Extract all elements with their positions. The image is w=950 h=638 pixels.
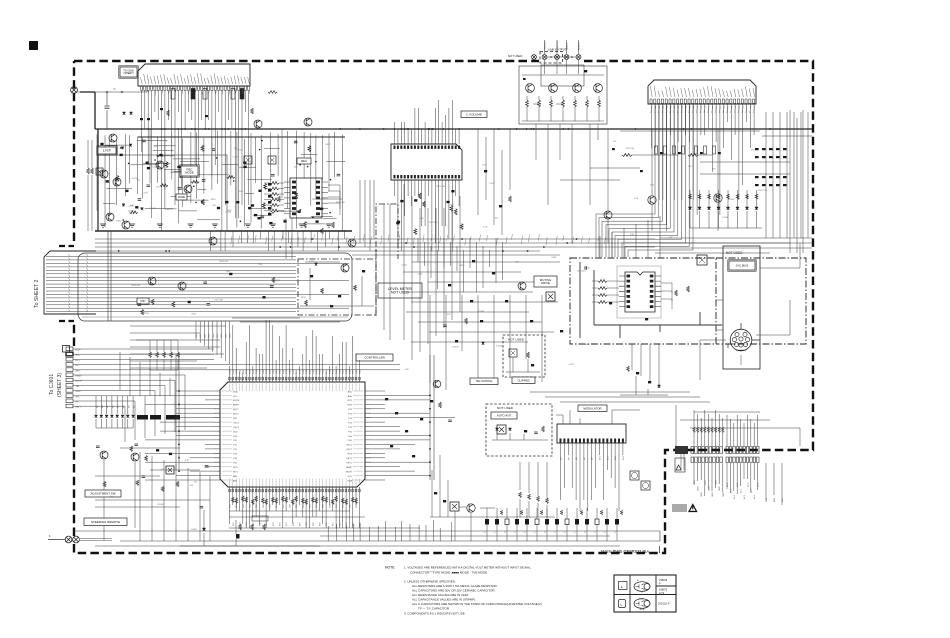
svg-text:TEL MUTING: TEL MUTING bbox=[476, 379, 493, 383]
svg-text:P7A: P7A bbox=[252, 370, 255, 374]
svg-text:RST: RST bbox=[348, 454, 353, 456]
svg-text:B.UP: B.UP bbox=[76, 350, 82, 352]
label TO CN30 bbox=[119, 66, 138, 78]
rec dash-dot extension bbox=[716, 258, 806, 344]
transistor symbol table bbox=[614, 575, 676, 612]
svg-text:1. VOLTAGES ARE REFERENCED WIT: 1. VOLTAGES ARE REFERENCED WITH A DIGITA… bbox=[404, 566, 532, 570]
mid right small parts bbox=[560, 129, 722, 265]
svg-text:ACC: ACC bbox=[729, 488, 732, 493]
label ADJUSTMENT SW bbox=[85, 490, 121, 497]
label MODE bbox=[176, 194, 187, 200]
svg-text:ALL CAPACITORS ARE 50V OR 25V: ALL CAPACITORS ARE 50V OR 25V CERAMIC CA… bbox=[412, 589, 496, 593]
QFP side pin labels bbox=[233, 390, 353, 482]
svg-text:KEY1: KEY1 bbox=[233, 409, 239, 411]
svg-text:L.N.P.: L.N.P. bbox=[103, 149, 112, 153]
small warn triangle bbox=[676, 465, 681, 470]
svg-text:R612: R612 bbox=[301, 297, 307, 299]
not-used black bars bbox=[137, 415, 148, 420]
verticals near C.VOLUME right bbox=[478, 129, 510, 235]
jacks J201-J204 bbox=[547, 56, 576, 58]
svg-text:0.022: 0.022 bbox=[132, 178, 138, 180]
label REC bbox=[297, 158, 311, 164]
bottom rails bbox=[74, 531, 660, 546]
svg-text:3. COMPONENTS IN [ ] INDICATE: 3. COMPONENTS IN [ ] INDICATE NOT USE. bbox=[404, 612, 466, 616]
svg-text:C334: C334 bbox=[309, 261, 315, 263]
svg-text:TF — T.F. CAPACITOR.: TF — T.F. CAPACITOR. bbox=[418, 607, 450, 611]
svg-text:GND: GND bbox=[719, 486, 721, 491]
label MIC2 bbox=[137, 298, 149, 304]
svg-text:NOT USED: NOT USED bbox=[726, 251, 743, 255]
svg-text:OSC2: OSC2 bbox=[233, 427, 240, 429]
svg-text:DRIVE: DRIVE bbox=[541, 281, 550, 285]
svg-text:C334: C334 bbox=[417, 274, 423, 276]
jumper J203 bbox=[268, 156, 276, 164]
svg-text:ILL-: ILL- bbox=[76, 365, 80, 367]
svg-text:R612: R612 bbox=[211, 199, 217, 201]
not used jacks dashed box bbox=[540, 52, 563, 64]
wire fan from CN201 bbox=[142, 91, 249, 232]
svg-text:CLIPPED: CLIPPED bbox=[517, 378, 529, 382]
svg-text:R612: R612 bbox=[460, 265, 466, 267]
harness transistors bbox=[148, 277, 156, 285]
svg-text:47K: 47K bbox=[447, 314, 451, 316]
boxed transistors Q407 Q408 bbox=[630, 471, 639, 480]
svg-text:P2A: P2A bbox=[335, 370, 338, 374]
label box small bottom bbox=[252, 516, 268, 521]
svg-text:P2A: P2A bbox=[269, 370, 272, 374]
svg-text:GND: GND bbox=[705, 480, 707, 485]
CN202 wire fan bbox=[652, 104, 755, 231]
frame jog at sheet2 comb bbox=[59, 246, 74, 321]
svg-text:1/16W: 1/16W bbox=[728, 199, 734, 201]
svg-text:1/16W: 1/16W bbox=[128, 210, 134, 212]
label MODULATOR bbox=[578, 405, 607, 412]
small ref box left of combs bbox=[675, 458, 685, 472]
din wires bbox=[700, 243, 800, 380]
svg-text:(SHEET): (SHEET) bbox=[124, 72, 134, 75]
components near IC201 bbox=[396, 190, 463, 235]
svg-text:47K: 47K bbox=[226, 271, 230, 273]
diode row D201-D208 bbox=[688, 190, 762, 228]
scatter value labels bbox=[110, 141, 768, 531]
auto ant parts bbox=[492, 426, 548, 440]
svg-text:P1A: P1A bbox=[232, 370, 235, 374]
svg-text:P6A: P6A bbox=[315, 370, 318, 374]
svg-text:4.7K: 4.7K bbox=[650, 184, 655, 186]
svg-text:1/16W: 1/16W bbox=[191, 529, 197, 531]
diode resistor bundle bbox=[95, 396, 135, 428]
svg-text:KEY2: KEY2 bbox=[346, 458, 352, 460]
svg-text:10K: 10K bbox=[154, 146, 158, 148]
label CONTROLLER bbox=[356, 354, 393, 361]
QFP flank vertical buses bbox=[176, 355, 434, 480]
connector row2 bbox=[691, 457, 722, 463]
jack J200 not used bbox=[532, 55, 537, 60]
svg-text:2SD1113 P: 2SD1113 P bbox=[658, 604, 670, 606]
IC402 DIP bbox=[625, 272, 655, 312]
svg-text:STEERING REMOTE: STEERING REMOTE bbox=[91, 520, 120, 524]
svg-text:VSS: VSS bbox=[233, 436, 238, 438]
svg-text:GND: GND bbox=[76, 391, 81, 393]
svg-text:ANT: ANT bbox=[773, 497, 776, 502]
res row left bottom bbox=[239, 524, 266, 530]
CN202 pin text bbox=[650, 86, 754, 97]
CJ601 pins bbox=[63, 346, 74, 408]
jvc bus outer box bbox=[723, 246, 760, 369]
svg-text:2SC1740: 2SC1740 bbox=[758, 190, 768, 192]
bottom cap row bbox=[485, 508, 623, 541]
svg-text:ALL RESISTANCE VALUES ARE IN O: ALL RESISTANCE VALUES ARE IN OHM. bbox=[412, 593, 469, 597]
svg-text:NOT USED: NOT USED bbox=[391, 291, 409, 295]
QFP pin stubs bbox=[214, 377, 371, 492]
svg-text:CONNECTOR″″″TYPE MODE. ■■■■ MO: CONNECTOR″″″TYPE MODE. ■■■■ MODE : TUB M… bbox=[410, 571, 488, 575]
svg-text:1/16W: 1/16W bbox=[452, 347, 458, 349]
svg-text:RST: RST bbox=[233, 418, 238, 420]
svg-text:SP-: SP- bbox=[76, 402, 80, 404]
svg-text:C334: C334 bbox=[144, 313, 150, 315]
svg-text:4.7K: 4.7K bbox=[634, 198, 639, 200]
svg-text:ANT: ANT bbox=[781, 497, 784, 502]
svg-text:P3A: P3A bbox=[239, 370, 242, 374]
svg-text:GND: GND bbox=[708, 486, 710, 491]
CN202 below-pin labels bbox=[651, 106, 755, 113]
svg-text:OSC1: OSC1 bbox=[233, 422, 240, 424]
svg-text:0.022: 0.022 bbox=[569, 364, 575, 366]
svg-text:ACC: ACC bbox=[743, 494, 746, 499]
svg-text:C334: C334 bbox=[152, 166, 158, 168]
label CLIPPED bbox=[512, 377, 535, 384]
svg-text:4.7K: 4.7K bbox=[668, 237, 673, 239]
svg-text:4.7K: 4.7K bbox=[483, 227, 488, 229]
svg-text:C334: C334 bbox=[128, 205, 134, 207]
svg-text:P4A: P4A bbox=[242, 370, 245, 374]
svg-text:CONTROLLER: CONTROLLER bbox=[364, 356, 385, 360]
svg-text:ANT: ANT bbox=[765, 497, 768, 502]
svg-text:R612: R612 bbox=[326, 144, 332, 146]
center parts bbox=[443, 260, 563, 344]
svg-text:KEY1: KEY1 bbox=[346, 463, 352, 465]
svg-text:ECB: ECB bbox=[639, 599, 644, 601]
svg-text:GND: GND bbox=[694, 480, 696, 485]
CJ601 pin labels bbox=[76, 350, 83, 409]
svg-text:P6A: P6A bbox=[282, 370, 285, 374]
resistors left of U202 bbox=[264, 182, 340, 234]
svg-text:0.022: 0.022 bbox=[204, 467, 210, 469]
svg-text:P8A: P8A bbox=[255, 370, 258, 374]
left vertical bus bbox=[77, 86, 147, 92]
label MUTING DRIVE bbox=[534, 276, 557, 287]
bottom right pin labels bbox=[694, 480, 784, 502]
svg-text:1/16W: 1/16W bbox=[496, 345, 502, 347]
svg-text:10K: 10K bbox=[283, 219, 287, 221]
svg-text:NOT USED: NOT USED bbox=[508, 54, 522, 58]
vertical pair crossing harness bbox=[108, 231, 111, 321]
connector CN405 bbox=[691, 447, 722, 454]
left-bottom verticals to rails bbox=[95, 452, 210, 541]
connector CN406 bbox=[726, 447, 759, 454]
region A wiring bbox=[97, 129, 345, 230]
svg-text:2. UNLESS OTHERWISE SPECIFIED:: 2. UNLESS OTHERWISE SPECIFIED: bbox=[404, 580, 456, 584]
svg-text:1/16W: 1/16W bbox=[150, 208, 156, 210]
svg-text:BEEP: BEEP bbox=[346, 467, 352, 469]
IC402 socket outline bbox=[617, 266, 661, 318]
svg-text:NOT USED: NOT USED bbox=[508, 338, 525, 342]
label TEL MUTING bbox=[470, 378, 498, 385]
svg-text:ACC: ACC bbox=[750, 488, 753, 493]
sub-circuit box left bbox=[98, 155, 227, 231]
svg-text:OSC1: OSC1 bbox=[346, 449, 353, 451]
svg-text:P8A: P8A bbox=[288, 370, 291, 374]
label STEERING REMOTE bbox=[84, 518, 127, 526]
svg-text:ACC: ACC bbox=[746, 482, 749, 487]
jumper J201 bbox=[96, 168, 103, 175]
IC601 controller QFP bbox=[220, 382, 365, 487]
svg-text:P1A: P1A bbox=[298, 370, 301, 374]
svg-text:SDA: SDA bbox=[233, 390, 238, 393]
svg-text:P5A: P5A bbox=[312, 370, 315, 374]
svg-text:P7A: P7A bbox=[318, 370, 321, 374]
svg-text:ACC: ACC bbox=[753, 494, 756, 499]
wires below line output bbox=[536, 124, 598, 243]
svg-text:4.7K: 4.7K bbox=[185, 460, 190, 462]
jumper J202 bbox=[244, 156, 252, 164]
svg-text:MUTE: MUTE bbox=[346, 471, 353, 473]
mid horizontal trunk wires bbox=[95, 239, 812, 255]
label JVC BUS bbox=[728, 260, 756, 271]
bus in rec box bbox=[580, 262, 722, 338]
svg-text:GND: GND bbox=[712, 492, 714, 497]
frame terminal P1 bbox=[71, 87, 78, 94]
svg-text:47K: 47K bbox=[212, 205, 216, 207]
right-bottom wire drops bbox=[676, 405, 800, 446]
diode cap bottom-left bbox=[202, 528, 205, 531]
jumper JP1 bbox=[166, 466, 174, 474]
svg-text:4.7K: 4.7K bbox=[482, 165, 487, 167]
connector CN202 bbox=[648, 80, 756, 104]
level meter transistor bbox=[341, 264, 349, 272]
cable box inner bottom line bbox=[82, 316, 348, 318]
resistor array boxes on fan bbox=[171, 89, 244, 100]
QFP bottom pin vertical labels bbox=[230, 503, 362, 526]
svg-text:1/16W: 1/16W bbox=[478, 311, 484, 313]
bus-crossing verticals to trunk bbox=[210, 231, 344, 251]
resistor packs under QFP bbox=[229, 496, 420, 528]
svg-text:ACC: ACC bbox=[740, 488, 743, 493]
NOT USED small dashed box bbox=[503, 335, 545, 377]
smd rows right bbox=[755, 148, 787, 186]
svg-text:VSS: VSS bbox=[348, 436, 353, 438]
svg-text:INT0: INT0 bbox=[233, 467, 239, 469]
svg-text:GND: GND bbox=[716, 480, 718, 485]
parts right of QFP bbox=[385, 380, 452, 457]
svg-text:P6A: P6A bbox=[348, 370, 351, 374]
QFP right wire dots bbox=[429, 395, 431, 477]
svg-text:P8A: P8A bbox=[322, 370, 325, 374]
svg-text:47K: 47K bbox=[613, 141, 617, 143]
wires below connectors bbox=[681, 454, 782, 505]
svg-text:C334: C334 bbox=[402, 265, 408, 267]
svg-text:ACC: ACC bbox=[757, 482, 760, 487]
svg-text:P5A: P5A bbox=[278, 370, 281, 374]
svg-text:P2A: P2A bbox=[235, 370, 238, 374]
svg-text:1/16W: 1/16W bbox=[722, 217, 728, 219]
svg-text:P5A: P5A bbox=[245, 370, 248, 374]
svg-text:P4A: P4A bbox=[308, 370, 311, 374]
warning gray label bbox=[672, 504, 687, 512]
svg-text:10K: 10K bbox=[165, 209, 169, 211]
svg-text:OSC2: OSC2 bbox=[346, 445, 353, 447]
svg-text:ILL+: ILL+ bbox=[76, 360, 81, 362]
svg-text:REAR R: REAR R bbox=[578, 42, 581, 50]
svg-text:P9A: P9A bbox=[292, 370, 295, 374]
svg-text:NOT USED: NOT USED bbox=[497, 406, 514, 410]
QFP right wires bbox=[371, 391, 455, 480]
svg-text:MODE: MODE bbox=[185, 170, 194, 174]
svg-text:2SC1740: 2SC1740 bbox=[215, 300, 225, 302]
QFP top pin vertical labels bbox=[229, 370, 362, 374]
cable harness box bbox=[78, 253, 352, 321]
svg-text:P4A: P4A bbox=[275, 370, 278, 374]
line out transistors bbox=[526, 84, 535, 93]
label LNP bbox=[97, 146, 117, 155]
svg-text:10K: 10K bbox=[294, 167, 298, 169]
connector CN201 bbox=[138, 64, 250, 86]
svg-text:0.022: 0.022 bbox=[585, 344, 591, 346]
svg-text:P0A: P0A bbox=[229, 370, 232, 374]
svg-text:2SC1740: 2SC1740 bbox=[131, 285, 141, 287]
svg-text:MODE: MODE bbox=[178, 196, 186, 199]
harness wire end ticks bbox=[69, 254, 89, 312]
svg-text:P3A: P3A bbox=[305, 370, 308, 374]
svg-text:ECB: ECB bbox=[640, 609, 645, 611]
cap C201 bbox=[106, 92, 108, 129]
svg-text:2x79: 2x79 bbox=[659, 593, 665, 595]
svg-text:ACC: ACC bbox=[733, 494, 736, 499]
bus line secondary bbox=[138, 136, 345, 138]
svg-text:L: L bbox=[621, 603, 623, 607]
svg-text:47K: 47K bbox=[304, 222, 308, 224]
svg-text:MIC: MIC bbox=[140, 299, 145, 303]
tiny labels on bundle bbox=[97, 405, 136, 408]
modulator pin wires bbox=[561, 443, 623, 511]
line out parts bbox=[522, 60, 604, 121]
svg-text:C334: C334 bbox=[449, 205, 455, 207]
svg-text:AUTO ANT: AUTO ANT bbox=[497, 414, 512, 418]
wires above rec box bbox=[600, 216, 660, 258]
svg-text:2SB815: 2SB815 bbox=[659, 580, 668, 582]
transistor Q401 bbox=[518, 282, 526, 290]
trunk drop labels texture bbox=[231, 234, 606, 245]
board outline dashed frame bbox=[74, 61, 813, 553]
svg-text:P3A: P3A bbox=[338, 370, 341, 374]
svg-text:2SC1740: 2SC1740 bbox=[436, 186, 446, 188]
svg-text:P1A: P1A bbox=[265, 370, 268, 374]
svg-text:INT1: INT1 bbox=[233, 471, 239, 473]
line out inner box bbox=[541, 65, 584, 86]
svg-text:P0A: P0A bbox=[262, 370, 265, 374]
svg-text:2SC1740: 2SC1740 bbox=[219, 261, 229, 263]
transistor Q304 Q305 bbox=[100, 451, 108, 459]
modulator bottom labels bbox=[561, 455, 625, 460]
smd column left of U202 bbox=[268, 183, 280, 216]
resistor row above CN405 bbox=[693, 427, 725, 433]
svg-text:2SC1740: 2SC1740 bbox=[429, 222, 439, 224]
svg-text:2SB872: 2SB872 bbox=[659, 590, 668, 592]
bottom transistor sq bbox=[450, 502, 459, 511]
rec dash-dot box bbox=[570, 258, 716, 344]
svg-text:R612: R612 bbox=[227, 210, 233, 212]
QFP left wire dots bbox=[178, 390, 180, 472]
svg-text:VDD: VDD bbox=[233, 431, 238, 433]
trunk junction dots bbox=[118, 238, 578, 252]
svg-text:To CJ601: To CJ601 bbox=[49, 374, 55, 395]
QFP bottom fan bbox=[230, 492, 360, 528]
modulator top wires bbox=[556, 410, 640, 424]
svg-text:P6A: P6A bbox=[249, 370, 252, 374]
svg-text:R612: R612 bbox=[192, 313, 198, 315]
svg-text:C334: C334 bbox=[551, 257, 557, 259]
svg-text:P9A: P9A bbox=[358, 370, 361, 374]
svg-text:INT1: INT1 bbox=[347, 400, 353, 402]
region A components bbox=[100, 140, 340, 228]
svg-text:P2A: P2A bbox=[302, 370, 305, 374]
resistor cluster left of QFP bbox=[136, 340, 179, 370]
svg-text:P9A: P9A bbox=[325, 370, 328, 374]
svg-text:ALL CAPACITANCE VALUES ARE IN: ALL CAPACITANCE VALUES ARE IN UF(PMF). bbox=[412, 598, 476, 602]
upper component band bbox=[106, 91, 277, 121]
svg-text:P0A: P0A bbox=[328, 370, 331, 374]
svg-text:REAR L: REAR L bbox=[566, 42, 569, 50]
svg-text:INT0: INT0 bbox=[347, 405, 353, 407]
page marker square bbox=[29, 41, 38, 50]
IC401 modulator bbox=[557, 424, 626, 443]
svg-text:ALL C.CAPACITORS ARE SHOWN IN: ALL C.CAPACITORS ARE SHOWN IN THE FORM O… bbox=[412, 602, 542, 606]
svg-text:P0A: P0A bbox=[295, 370, 298, 374]
svg-text:P4A: P4A bbox=[342, 370, 345, 374]
verticals crossing mid band bbox=[286, 180, 460, 360]
svg-text:10K: 10K bbox=[515, 262, 519, 264]
label LEVEL METER NOT USED bbox=[378, 283, 422, 298]
svg-text:MUTE: MUTE bbox=[76, 381, 83, 383]
bottom verticals bbox=[328, 507, 495, 541]
connector CN404 dark bbox=[675, 446, 688, 454]
svg-text:10K: 10K bbox=[405, 369, 409, 371]
svg-text:MUTE: MUTE bbox=[233, 400, 240, 402]
bottom transistor Q502 bbox=[467, 504, 475, 512]
bus junction pads bbox=[141, 128, 771, 130]
svg-text:SP+: SP+ bbox=[76, 396, 81, 398]
terminal bottom-left P2 bbox=[65, 536, 72, 543]
svg-text:R612: R612 bbox=[585, 268, 591, 270]
svg-text:(SHEET 3): (SHEET 3) bbox=[57, 373, 63, 397]
IC U202 bbox=[290, 178, 322, 218]
bus line gnd upper bbox=[95, 230, 352, 232]
svg-text:4.7K: 4.7K bbox=[161, 469, 166, 471]
svg-text:4.7K: 4.7K bbox=[630, 234, 635, 236]
svg-text:FRONT R: FRONT R bbox=[557, 41, 559, 50]
svg-text:R612: R612 bbox=[117, 220, 123, 222]
resistors around IC402 bbox=[585, 266, 689, 320]
IC201 electronic volume bbox=[391, 144, 462, 180]
QFP top fan with labels bbox=[230, 318, 360, 377]
label C.VOLUME bbox=[461, 111, 487, 118]
left-bottom parts bbox=[95, 444, 208, 540]
svg-text:GND: GND bbox=[701, 492, 703, 497]
svg-text:FRONT L: FRONT L bbox=[545, 41, 547, 50]
QFP left wires bbox=[145, 391, 214, 480]
svg-text:ACC: ACC bbox=[726, 482, 729, 487]
svg-text:P7A: P7A bbox=[352, 370, 355, 374]
